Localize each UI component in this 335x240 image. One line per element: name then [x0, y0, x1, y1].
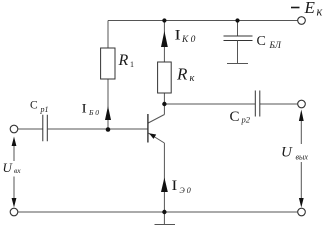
svg-text:БЛ: БЛ	[269, 40, 282, 50]
svg-text:р1: р1	[40, 105, 49, 114]
svg-text:I: I	[175, 28, 181, 44]
svg-text:U: U	[3, 160, 14, 175]
svg-text:Б 0: Б 0	[88, 108, 99, 117]
svg-text:Э 0: Э 0	[180, 186, 191, 195]
svg-text:I: I	[82, 102, 87, 116]
svg-text:вых: вых	[296, 153, 309, 162]
svg-text:к: к	[190, 73, 195, 84]
svg-text:E: E	[304, 0, 316, 17]
svg-text:к: к	[317, 5, 323, 19]
svg-text:I: I	[172, 178, 178, 194]
svg-text:U: U	[281, 145, 293, 161]
svg-text:C: C	[257, 34, 266, 49]
svg-text:C: C	[30, 100, 38, 112]
svg-text:1: 1	[130, 60, 134, 69]
svg-text:вх: вх	[14, 166, 21, 175]
svg-text:р2: р2	[241, 115, 251, 125]
svg-text:C: C	[230, 109, 240, 125]
svg-text:К 0: К 0	[181, 35, 196, 45]
svg-text:R: R	[176, 65, 188, 84]
svg-text:R: R	[118, 52, 129, 69]
